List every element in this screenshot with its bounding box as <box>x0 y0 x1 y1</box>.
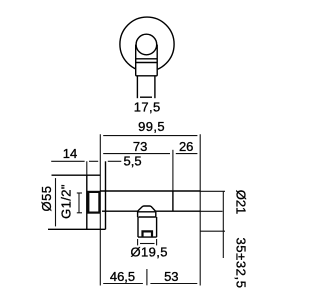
nut body <box>138 217 157 237</box>
tube bottom line (gap at outlet dome) <box>102 210 137 212</box>
flange bottom edge + Ø55 extension <box>48 228 106 230</box>
dim Ø21 <box>200 190 248 258</box>
svg-text:53: 53 <box>164 269 178 284</box>
dim 73 / 26 <box>103 139 197 191</box>
svg-text:5,5: 5,5 <box>124 153 142 168</box>
svg-text:46,5: 46,5 <box>110 269 135 284</box>
dim Ø55 <box>39 178 56 226</box>
aerator insert (thick) <box>143 231 153 237</box>
dim 14 <box>51 146 98 175</box>
G1/2 socket (thick) <box>88 192 99 213</box>
svg-text:Ø21: Ø21 <box>233 190 248 215</box>
svg-text:Ø19,5: Ø19,5 <box>130 245 167 260</box>
wall flange circle Ø55 <box>120 17 174 71</box>
svg-text:35±32,5: 35±32,5 <box>234 237 249 288</box>
collar mask (hides flange arc behind outlet body) <box>135 44 158 76</box>
svg-text:Ø55: Ø55 <box>39 185 54 211</box>
tube joint <box>172 191 174 211</box>
svg-text:99,5: 99,5 <box>138 119 165 134</box>
tube end extension line <box>199 134 201 285</box>
outlet stub <box>137 76 155 98</box>
cover plate lip line <box>105 161 107 229</box>
washer band <box>138 212 156 217</box>
collar body outline <box>136 45 158 76</box>
dim Ø19,5 <box>130 239 167 260</box>
svg-text:17,5: 17,5 <box>134 99 161 114</box>
outlet pipe circle Ø21 <box>136 34 157 55</box>
flange left face <box>86 175 88 229</box>
svg-text:26: 26 <box>179 139 193 154</box>
dim 5,5 <box>108 153 142 168</box>
svg-text:73: 73 <box>133 139 147 154</box>
svg-text:14: 14 <box>63 146 77 161</box>
outlet axis extension <box>146 269 148 285</box>
dim G1/2" <box>59 184 83 219</box>
flange top edge + Ø55 extension <box>52 174 101 176</box>
dome base line <box>137 211 156 213</box>
dim 35±32,5 <box>200 231 248 288</box>
svg-text:G1/2": G1/2" <box>59 184 74 219</box>
dim 46,5 / 53 <box>103 269 197 284</box>
dim 99,5 <box>103 119 197 136</box>
wall face extension line <box>99 134 101 285</box>
outlet dome <box>137 206 156 212</box>
tube top line <box>100 190 200 192</box>
